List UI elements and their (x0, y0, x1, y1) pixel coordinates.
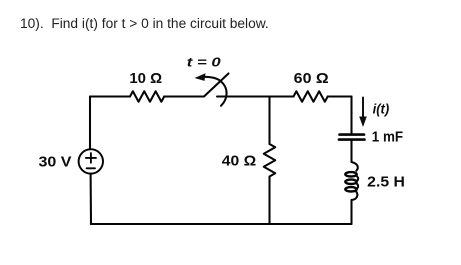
switch motion arc (205, 77, 227, 106)
capacitor C1 bottom plate (339, 138, 365, 141)
node T-junction to 40 ohm branch (270, 95, 294, 97)
wire top-left horizontal (90, 95, 130, 97)
switch blade t=0 (204, 74, 229, 97)
voltage source minus sign (87, 167, 95, 169)
resistor R2 40 ohm vertical zigzag (264, 144, 276, 177)
voltage source V1 circle (79, 149, 103, 173)
problem statement text (20, 16, 269, 31)
svg-text:t = 0: t = 0 (187, 55, 222, 70)
wire capacitor to inductor (350, 141, 352, 163)
svg-text:1 mF: 1 mF (372, 128, 403, 145)
inductor L1 connector 2 (357, 183, 359, 189)
svg-text:40 Ω: 40 Ω (222, 152, 256, 169)
current arrow i(t) head (359, 117, 367, 128)
wire right branch down to capacitor (350, 97, 352, 135)
svg-text:30 V: 30 V (39, 153, 72, 170)
wire middle branch bottom (268, 177, 270, 225)
svg-text:2.5 H: 2.5 H (367, 173, 405, 190)
bottom wire (91, 223, 352, 225)
svg-text:i(t): i(t) (373, 101, 390, 116)
wire from R3 to top-right corner (328, 95, 352, 97)
wire from R1 to switch (164, 95, 204, 97)
switch arrowhead (195, 73, 206, 81)
wire from switch to middle node (217, 95, 270, 97)
wire left branch top (89, 97, 91, 150)
resistor R1 10 ohm zigzag (130, 91, 164, 101)
inductor L1 connector 1 (357, 176, 359, 182)
wire middle branch top (268, 97, 270, 145)
inductor L1 loop 3 (345, 187, 356, 191)
wire left branch bottom (90, 174, 92, 224)
resistor R3 60 ohm zigzag (294, 91, 328, 101)
inductor L1 loop 1 (345, 172, 356, 176)
voltage source plus sign (86, 153, 96, 163)
inductor L1 exit curve (352, 192, 358, 200)
svg-text:60 Ω: 60 Ω (294, 70, 329, 87)
svg-text:10 Ω: 10 Ω (129, 70, 162, 87)
current arrow i(t) shaft (362, 98, 364, 119)
capacitor C1 top plate (340, 133, 365, 136)
wire inductor to bottom-right corner (350, 200, 352, 224)
inductor L1 loop 2 (345, 180, 356, 184)
inductor L1 entry curve (352, 162, 358, 171)
